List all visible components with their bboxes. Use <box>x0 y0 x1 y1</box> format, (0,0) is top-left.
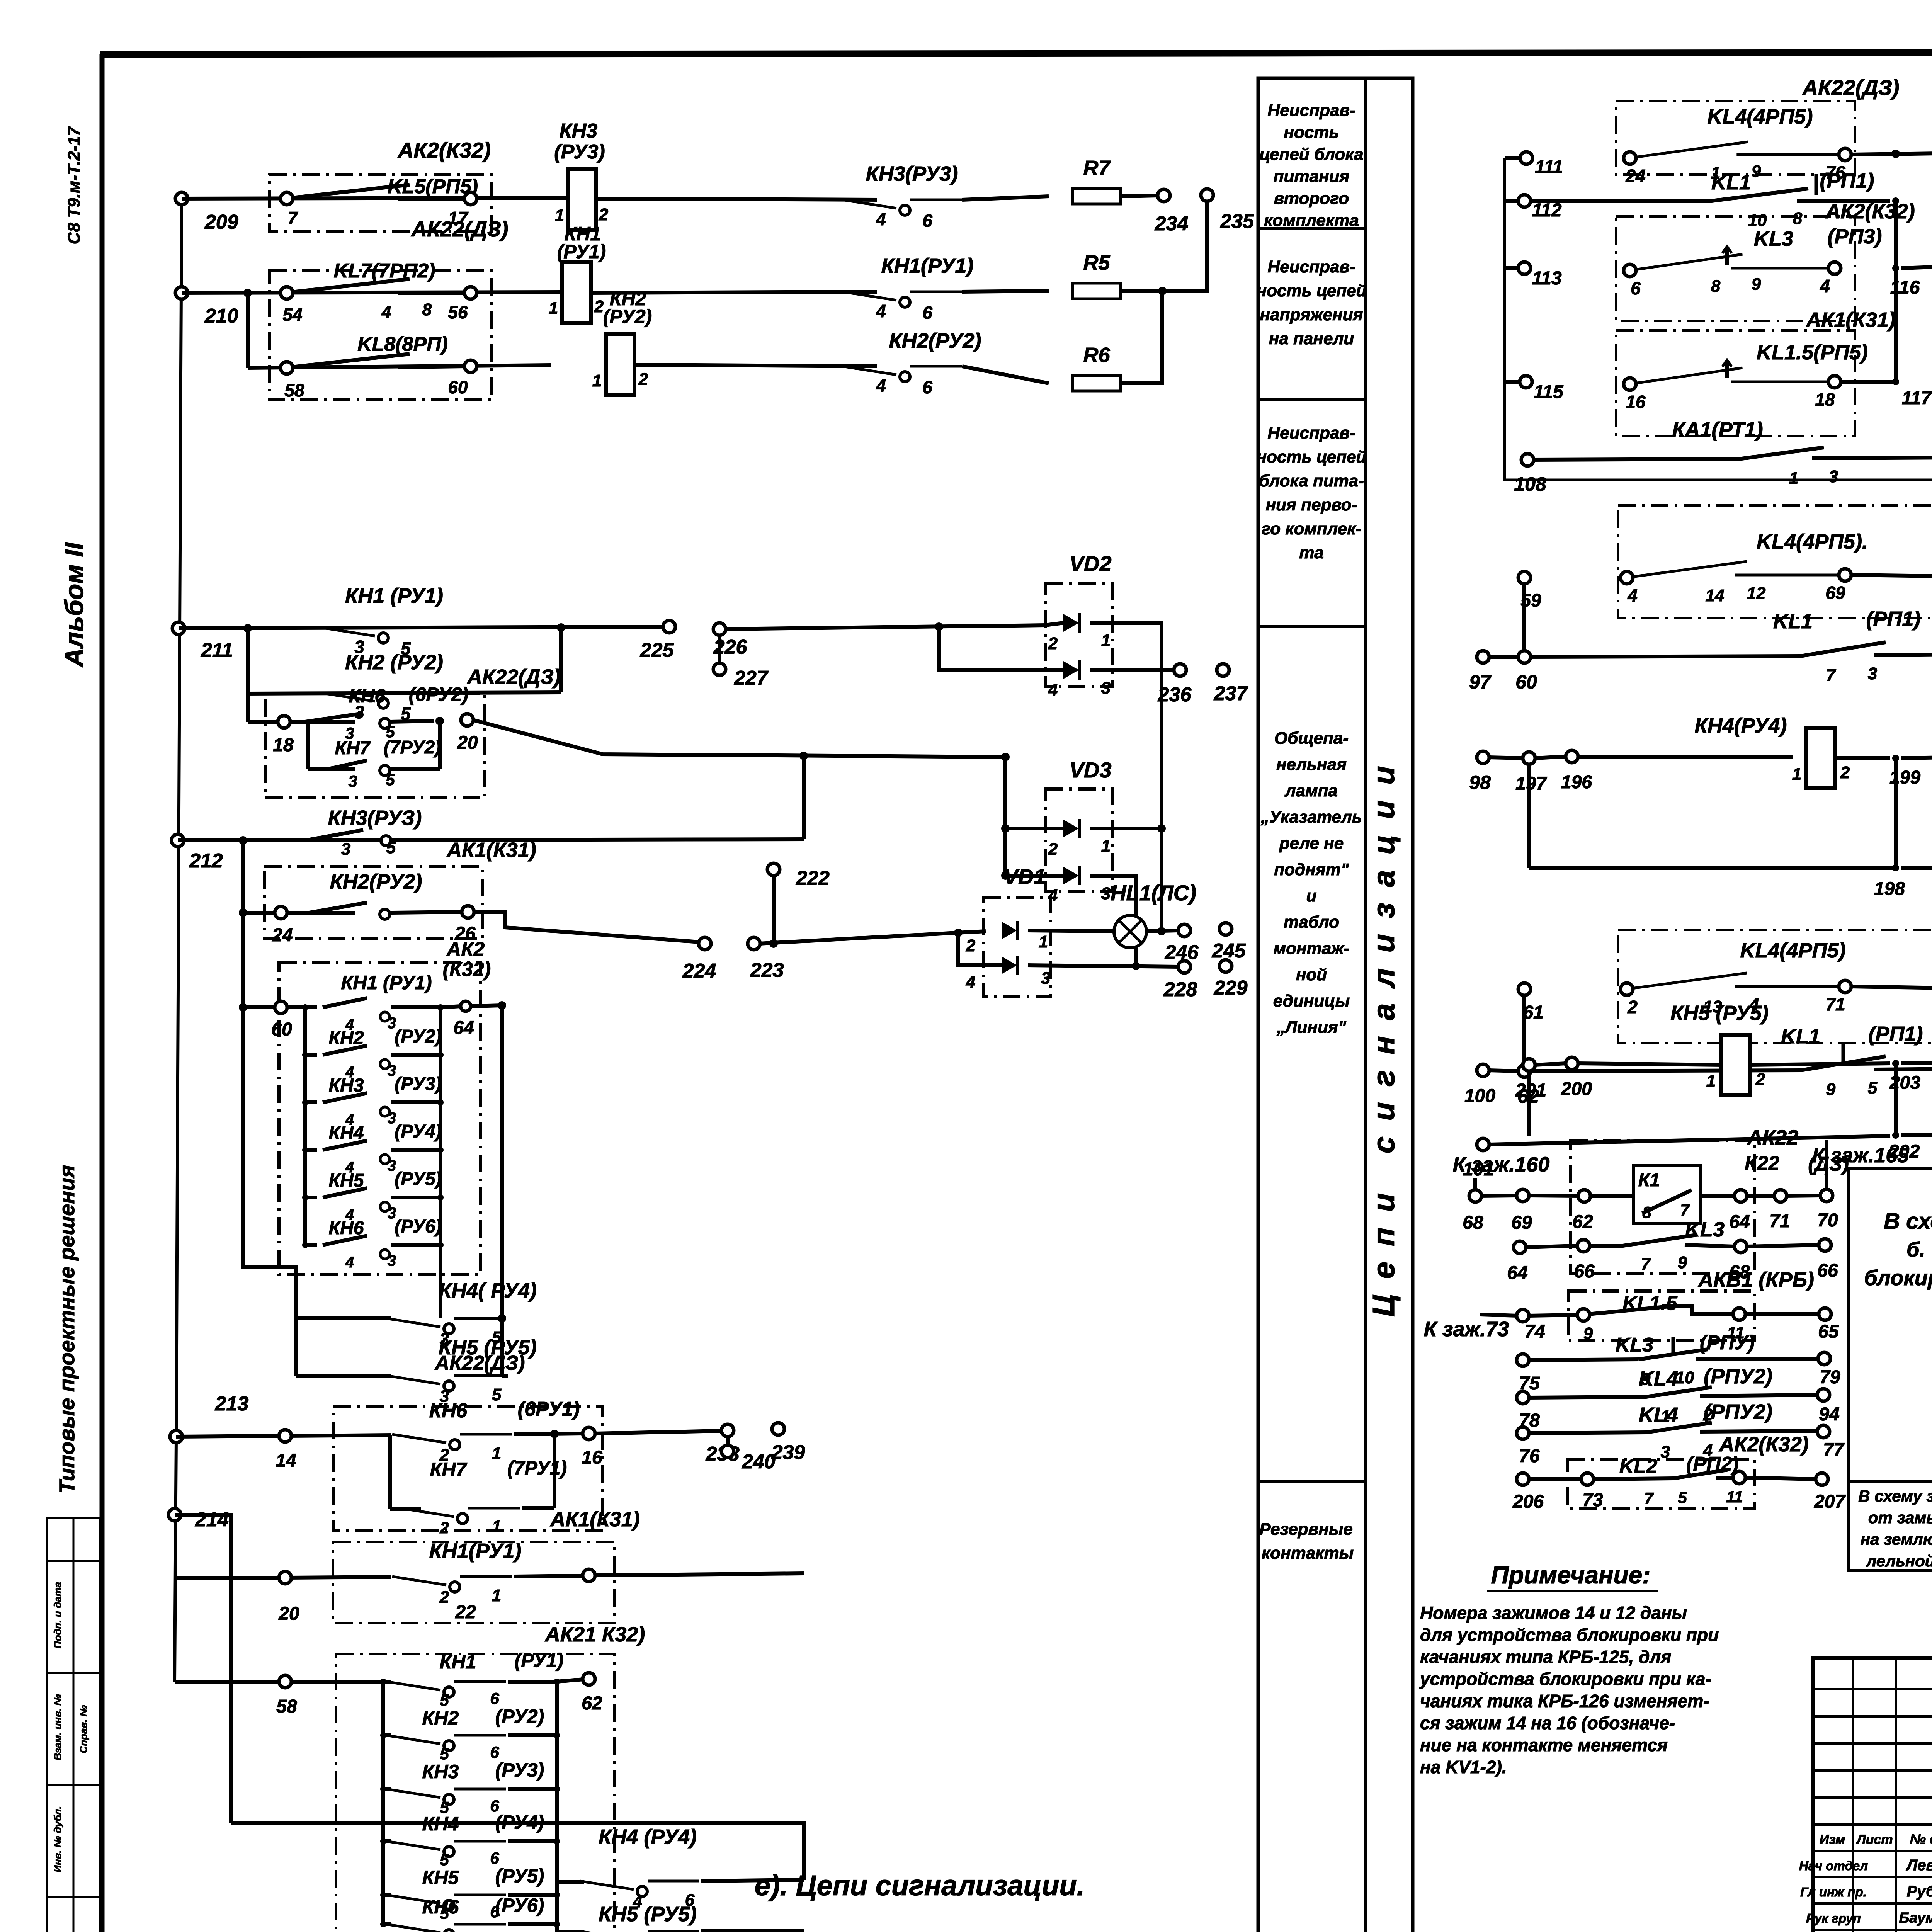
coil KH2(RU2) <box>592 288 652 395</box>
relay box AK22(D3) top right <box>1616 75 1899 175</box>
contact KL1.4(RP4) row202 <box>1901 1111 1932 1163</box>
wire row kh1 bottom <box>175 1576 280 1580</box>
wire row98 <box>1488 757 1524 758</box>
svg-text:К22: К22 <box>1745 1152 1779 1175</box>
svg-text:16: 16 <box>582 1447 602 1468</box>
svg-text:ность цепей: ность цепей <box>1257 447 1367 466</box>
device box K1 <box>1633 1165 1701 1224</box>
legend text panel lamp <box>1260 729 1362 1037</box>
terminal 66b <box>1817 1239 1838 1281</box>
svg-text:R6: R6 <box>1083 344 1110 367</box>
svg-text:КН1 (РУ1): КН1 (РУ1) <box>341 972 432 993</box>
svg-text:(РУ2): (РУ2) <box>603 306 652 327</box>
terminal 237 <box>1214 664 1248 705</box>
svg-text:210: 210 <box>204 305 238 327</box>
svg-text:2: 2 <box>439 1588 449 1607</box>
terminal 234 <box>1155 189 1189 235</box>
svg-text:6: 6 <box>490 1689 499 1708</box>
terminal 201 <box>1515 1059 1546 1136</box>
svg-text:КН1(РУ1): КН1(РУ1) <box>429 1539 522 1563</box>
svg-text:лампа: лампа <box>1284 781 1338 800</box>
bottom ladder verticals <box>381 1682 385 1924</box>
svg-text:8: 8 <box>1793 209 1803 228</box>
contact КН6(РУ6) bottom ladder <box>380 1895 560 1932</box>
svg-text:KL4(4РП5): KL4(4РП5) <box>1740 939 1846 962</box>
wire row5 <box>248 692 561 694</box>
svg-text:В схему: В схему <box>1884 1209 1932 1234</box>
svg-text:KL4(4РП5): KL4(4РП5) <box>1708 105 1813 128</box>
wire 24 row <box>243 911 276 915</box>
svg-text:КА1(РТ1): КА1(РТ1) <box>1672 418 1763 441</box>
terminal 76 <box>1517 1427 1540 1466</box>
terminal 79 <box>1818 1352 1840 1388</box>
wire row3 left <box>248 365 551 368</box>
node 209 <box>175 192 238 233</box>
node 211 <box>172 622 233 662</box>
contact KL4(RPU2) row78 <box>1528 1365 1818 1426</box>
svg-text:5: 5 <box>440 1850 449 1869</box>
wire VD3 pin3 out <box>1090 876 1136 966</box>
wire 58 to ladder <box>291 1680 383 1684</box>
contact KH5(RU5) row <box>296 1318 537 1406</box>
svg-text:18: 18 <box>273 735 294 755</box>
svg-text:4: 4 <box>381 303 391 321</box>
svg-text:Общепа-: Общепа- <box>1274 729 1349 748</box>
svg-text:нельная: нельная <box>1276 755 1347 774</box>
terminal 77 <box>1817 1425 1845 1460</box>
wire row4 <box>179 627 664 628</box>
svg-text:14: 14 <box>1706 586 1725 605</box>
svg-text:Левкович: Левкович <box>1906 1857 1932 1874</box>
svg-text:5: 5 <box>386 838 396 857</box>
svg-text:4: 4 <box>1627 585 1638 605</box>
svg-text:питания: питания <box>1274 167 1350 186</box>
junction row6 x2080 <box>799 752 808 760</box>
terminal 69b <box>1511 1189 1532 1233</box>
right feed bus <box>1505 158 1932 480</box>
coil KH5(RU5) <box>1670 1002 1769 1095</box>
svg-text:18: 18 <box>1815 389 1835 410</box>
wire 197 to 198 row <box>1529 764 1896 868</box>
wire row214 <box>175 1515 231 1823</box>
svg-text:КН5 (РУ5): КН5 (РУ5) <box>1670 1002 1769 1025</box>
legend text fault first set <box>1257 423 1367 562</box>
svg-text:АК2(К32): АК2(К32) <box>1825 200 1915 223</box>
wire row6 left <box>248 720 279 724</box>
contact KL3(RPU1) row3520 <box>1528 1332 1819 1389</box>
svg-text:68: 68 <box>1463 1213 1483 1233</box>
terminal 223 <box>748 937 784 981</box>
contact КН1(РУ1) ladder <box>305 972 432 1007</box>
svg-text:КН3(РУЗ): КН3(РУЗ) <box>328 806 422 830</box>
wire 199 down 198 <box>1894 758 1898 868</box>
svg-text:97: 97 <box>1469 671 1492 693</box>
svg-text:7: 7 <box>1641 1255 1651 1274</box>
svg-text:Взам. инв. №: Взам. инв. № <box>52 1694 63 1760</box>
terminal 245 <box>1212 923 1246 962</box>
svg-text:2: 2 <box>1627 997 1638 1017</box>
svg-text:227: 227 <box>734 667 769 689</box>
svg-text:222: 222 <box>796 867 830 889</box>
contact KL4(4RP5) row61 <box>1621 939 1851 1017</box>
svg-text:„Линия": „Линия" <box>1276 1018 1346 1037</box>
terminal 71b <box>1769 1190 1790 1231</box>
junction lamp feeds <box>769 939 778 948</box>
svg-text:235: 235 <box>1220 210 1254 233</box>
terminal 59 <box>1518 571 1541 651</box>
contact KH7(7RU1) <box>390 1434 567 1537</box>
terminal 62 right <box>1517 1065 1539 1107</box>
svg-text:5: 5 <box>1678 1488 1687 1507</box>
junction 211 branch <box>243 624 252 633</box>
svg-text:Рубинчик: Рубинчик <box>1907 1883 1932 1900</box>
wire row2 mid <box>591 292 877 293</box>
contact KL3(RP3) row203 <box>1901 1022 1932 1091</box>
contact КН5(РУ5) ladder <box>305 1169 442 1197</box>
diode block VD2 <box>1045 551 1112 699</box>
svg-text:7: 7 <box>1680 1201 1690 1219</box>
wire ladder bottom link <box>243 1007 296 1376</box>
terminal 18 <box>273 716 294 755</box>
relay box AK1(K31) row115 <box>1616 308 1896 436</box>
wire row4 right <box>725 625 1045 629</box>
contact KH7(7RU2) <box>308 721 441 790</box>
terminal 22 bottom <box>455 1569 595 1622</box>
svg-text:4: 4 <box>1048 680 1058 699</box>
coil KH4(RU4) <box>1695 714 1850 788</box>
terminal 101 <box>1463 1138 1494 1180</box>
svg-text:блокировки: блокировки <box>1864 1265 1932 1290</box>
wire long bottom link <box>231 1823 804 1880</box>
svg-text:(РУ6): (РУ6) <box>495 1895 544 1916</box>
svg-text:КН2(РУ2): КН2(РУ2) <box>330 870 422 893</box>
terminal 235 <box>1201 189 1254 233</box>
svg-text:КН6: КН6 <box>429 1400 468 1422</box>
svg-text:1: 1 <box>1792 765 1801 784</box>
svg-text:цепей блока: цепей блока <box>1259 145 1363 164</box>
terminal 73 <box>1581 1473 1603 1510</box>
svg-text:KL1: KL1 <box>1781 1025 1820 1048</box>
middle legend column <box>1258 78 1413 1932</box>
svg-text:KL2: KL2 <box>1619 1455 1657 1478</box>
svg-text:14: 14 <box>276 1451 296 1471</box>
terminal 65 <box>1818 1308 1839 1342</box>
wire 101 row <box>1488 1136 1890 1145</box>
terminal 196 <box>1561 750 1592 793</box>
svg-text:239: 239 <box>771 1441 805 1464</box>
node 210 <box>175 287 238 327</box>
svg-text:62: 62 <box>1572 1212 1593 1232</box>
terminal 100 <box>1464 1064 1495 1106</box>
svg-text:Изм: Изм <box>1820 1832 1845 1847</box>
svg-text:6: 6 <box>490 1849 499 1867</box>
svg-text:60: 60 <box>271 1019 292 1040</box>
svg-text:3: 3 <box>348 772 357 790</box>
svg-text:1: 1 <box>1101 837 1111 855</box>
wire VD3 pin1 out <box>1090 827 1162 830</box>
contact КН4(РУ4) bottom ladder <box>380 1811 560 1869</box>
svg-text:1: 1 <box>1101 631 1111 650</box>
legend text fault voltage <box>1257 257 1367 348</box>
svg-text:Неисправ-: Неисправ- <box>1267 423 1355 442</box>
svg-text:В схему защиты: В схему защиты <box>1858 1487 1932 1505</box>
svg-text:блока пита-: блока пита- <box>1259 471 1364 490</box>
contact KL8(8RP) <box>281 333 477 400</box>
note text <box>1419 1603 1719 1777</box>
svg-text:197: 197 <box>1515 774 1547 794</box>
svg-text:1: 1 <box>1706 1071 1716 1090</box>
terminal 62b <box>1572 1190 1593 1232</box>
contact KH2(RU2) button <box>842 329 981 397</box>
svg-text:КН4 (РУ4): КН4 (РУ4) <box>599 1825 697 1849</box>
wire VD1 pin4 feed <box>958 933 1002 965</box>
wire 62 stub <box>557 1679 583 1682</box>
terminal 225 <box>640 621 675 662</box>
junction 203 <box>1889 1060 1920 1093</box>
svg-text:234: 234 <box>1155 213 1189 235</box>
svg-text:108: 108 <box>1514 473 1546 495</box>
svg-text:(7РУ1): (7РУ1) <box>507 1457 567 1479</box>
svg-text:60: 60 <box>1515 671 1537 693</box>
wire row kh1 bottom right <box>594 1573 804 1575</box>
svg-text:77: 77 <box>1823 1440 1845 1460</box>
node 214 <box>168 1509 229 1531</box>
svg-text:напряжения: напряжения <box>1260 305 1363 324</box>
svg-text:КН2: КН2 <box>422 1707 459 1729</box>
svg-text:198: 198 <box>1874 879 1905 899</box>
contact KH1(RU1) button <box>842 254 973 323</box>
junction 198 <box>1874 864 1905 899</box>
wire row111 right <box>1850 153 1932 155</box>
svg-text:2: 2 <box>599 205 609 224</box>
svg-text:„Указатель: „Указатель <box>1260 808 1362 827</box>
svg-text:на панели: на панели <box>1269 329 1354 348</box>
wire ladder feed <box>243 1005 276 1009</box>
relay box AK2(K32) ladder <box>279 962 481 1274</box>
svg-text:(РУ4): (РУ4) <box>395 1121 441 1142</box>
svg-text:для устройства блокировки при: для устройства блокировки при <box>1420 1625 1719 1645</box>
svg-text:Номера зажимов 14 и 12 даны: Номера зажимов 14 и 12 даны <box>1420 1603 1687 1623</box>
svg-text:Справ. №: Справ. № <box>78 1705 89 1753</box>
legend text reserve contacts <box>1259 1520 1354 1563</box>
relay box AK22(D3) kh6 <box>1618 477 1932 618</box>
svg-text:240: 240 <box>742 1451 776 1473</box>
svg-text:(РУ3): (РУ3) <box>495 1759 544 1781</box>
svg-text:228: 228 <box>1163 978 1197 1001</box>
terminal 75 <box>1517 1354 1540 1394</box>
svg-text:24: 24 <box>272 925 293 946</box>
svg-text:АК1(К31): АК1(К31) <box>1805 308 1895 332</box>
wire R7 to 234 <box>1121 196 1158 196</box>
terminal 227 <box>713 634 769 689</box>
svg-text:7: 7 <box>287 208 298 228</box>
terminal 61 <box>1518 983 1544 1065</box>
svg-text:е). Цепи сигнализации.: е). Цепи сигнализации. <box>755 1869 1085 1901</box>
relay box AK2(K32) row113 <box>1616 216 1855 321</box>
svg-text:АК22(ДЗ): АК22(ДЗ) <box>466 665 561 689</box>
svg-text:66: 66 <box>1817 1260 1838 1281</box>
svg-text:24: 24 <box>1625 166 1645 186</box>
wire row213 right <box>594 1431 722 1434</box>
terminal 226 <box>713 623 748 658</box>
svg-text:9: 9 <box>1826 1080 1836 1099</box>
svg-text:6: 6 <box>922 303 932 323</box>
diode block VD3 <box>1045 758 1112 905</box>
wire row213 left <box>176 1436 280 1437</box>
svg-text:HL1(ЛС): HL1(ЛС) <box>1111 881 1196 905</box>
terminal 20 <box>457 714 478 753</box>
junction KH7 right <box>435 717 444 725</box>
svg-text:(РП3): (РП3) <box>1828 225 1882 248</box>
svg-text:(6РУ1): (6РУ1) <box>518 1398 580 1420</box>
contact KL1.5 row3405 <box>1528 1292 1745 1343</box>
terminal 206 <box>1512 1473 1544 1512</box>
svg-text:3: 3 <box>1041 969 1050 988</box>
svg-text:5: 5 <box>1868 1078 1878 1097</box>
svg-text:2: 2 <box>1048 840 1058 859</box>
terminal 66 <box>1574 1240 1595 1282</box>
svg-text:74: 74 <box>1524 1321 1545 1342</box>
svg-text:устройства блокировки при ка-: устройства блокировки при ка- <box>1419 1669 1711 1689</box>
terminal 246 <box>1165 924 1199 964</box>
svg-text:КН3: КН3 <box>560 120 598 142</box>
svg-text:единицы: единицы <box>1273 992 1350 1010</box>
wire 235 down to R5 node <box>1162 201 1207 291</box>
svg-text:1: 1 <box>492 1444 501 1463</box>
terminal 98 <box>1469 751 1491 793</box>
svg-text:Лист: Лист <box>1855 1832 1893 1847</box>
title block tables <box>1813 1658 1932 1932</box>
svg-text:(РП1): (РП1) <box>1866 607 1921 631</box>
svg-text:65: 65 <box>1818 1321 1839 1342</box>
relay box AK1(K31) 24-26 <box>264 867 482 939</box>
svg-text:КН3: КН3 <box>329 1075 364 1096</box>
terminal 222 <box>767 863 830 944</box>
svg-text:71: 71 <box>1825 994 1845 1014</box>
terminal 68b <box>1729 1240 1750 1282</box>
label AK22 K22 D3 <box>1745 1126 1849 1175</box>
contact KL3(RP3) row113 <box>1624 225 1882 298</box>
svg-text:4: 4 <box>876 376 886 396</box>
svg-text:1: 1 <box>1039 932 1048 951</box>
wire VD2 pin2 feed <box>1045 623 1063 625</box>
contact КН4(РУ4) ladder <box>305 1121 442 1150</box>
wire row1 right <box>962 196 1049 200</box>
svg-text:от замыканий: от замыканий <box>1868 1509 1932 1527</box>
terminal 62 bottom <box>582 1673 602 1714</box>
terminal 58 bottom <box>276 1675 297 1717</box>
wire 64 to right chain <box>471 1001 506 1323</box>
terminal 70 <box>1817 1189 1838 1231</box>
contact KL4(4RP5) row59 <box>1621 530 1868 605</box>
svg-text:9: 9 <box>1752 162 1761 181</box>
terminal 113 <box>1505 262 1562 289</box>
resistor R7 <box>1073 189 1121 204</box>
contact KL1.5(RP5) row115 <box>1624 341 1868 412</box>
svg-text:1: 1 <box>555 206 564 225</box>
svg-text:20: 20 <box>278 1604 299 1624</box>
contact KH2(RU2) 24-26 <box>286 870 463 919</box>
relay box AK1(K31) bottom <box>333 1508 640 1623</box>
svg-text:лельной линии: лельной линии <box>1866 1552 1932 1570</box>
contact KH6(6RU1) <box>392 1398 580 1464</box>
svg-text:контакты: контакты <box>1262 1544 1354 1563</box>
terminal 240 <box>721 1436 776 1473</box>
svg-text:211: 211 <box>201 639 233 662</box>
relay box AK22(D3) left <box>269 217 508 400</box>
wire branch to 24 row <box>241 840 245 913</box>
svg-text:64: 64 <box>1507 1263 1527 1283</box>
svg-text:ся зажим 14 на 16 (обозначе-: ся зажим 14 на 16 (обозначе- <box>1420 1713 1675 1733</box>
svg-text:206: 206 <box>1512 1492 1544 1512</box>
svg-text:та: та <box>1299 543 1324 562</box>
svg-text:(РУ5): (РУ5) <box>495 1865 544 1887</box>
terminal 20 bottom <box>278 1571 299 1624</box>
svg-text:качаниях типа КРБ-125, для: качаниях типа КРБ-125, для <box>1420 1647 1671 1667</box>
contact КН5(РУ5) bottom ladder <box>380 1865 560 1922</box>
svg-text:б. ч.: б. ч. <box>1906 1238 1932 1261</box>
svg-text:60: 60 <box>448 377 468 397</box>
svg-text:КН2: КН2 <box>329 1028 364 1048</box>
svg-text:5: 5 <box>440 1691 449 1709</box>
svg-text:ность цепей: ность цепей <box>1257 281 1367 300</box>
wire to 65 <box>1745 1312 1820 1316</box>
contact KA1(RT1) <box>1533 418 1932 488</box>
svg-text:(РУ6): (РУ6) <box>395 1216 441 1237</box>
svg-text:64: 64 <box>453 1018 474 1038</box>
svg-text:табло: табло <box>1284 913 1339 932</box>
svg-text:(РУ1): (РУ1) <box>515 1650 563 1671</box>
svg-text:2: 2 <box>1755 1070 1765 1089</box>
contact KH1(RU1) bottom <box>291 1539 583 1607</box>
svg-text:4: 4 <box>966 973 975 992</box>
junction row111 <box>1891 150 1900 158</box>
terminal 64b <box>1729 1190 1750 1232</box>
svg-text:2: 2 <box>594 297 604 316</box>
terminal 228 <box>1163 961 1197 1001</box>
svg-text:7: 7 <box>1644 1489 1654 1507</box>
svg-text:на землю парал-: на землю парал- <box>1861 1530 1932 1548</box>
svg-text:КН6: КН6 <box>329 1218 364 1238</box>
terminal 14 row213 <box>276 1430 296 1471</box>
svg-text:64: 64 <box>1729 1212 1750 1232</box>
wire coil kh4 right <box>1835 756 1890 760</box>
wire 60 to ladder <box>286 1005 305 1009</box>
wire VD3 pin2 feed <box>1005 827 1063 830</box>
svg-text:КН3: КН3 <box>422 1761 459 1782</box>
node 213 <box>170 1393 248 1443</box>
wire 26 out to lamp row <box>473 912 699 942</box>
note title <box>1487 1561 1658 1591</box>
wire lamp row <box>759 931 986 944</box>
contact KL1(RP1) row100 <box>1530 1022 1932 1099</box>
contact KH3(RU3) button <box>842 162 962 231</box>
terminal 224 <box>682 937 716 982</box>
contact KH6(6RU2) <box>289 684 468 742</box>
svg-text:5: 5 <box>492 1385 502 1404</box>
relay box AK2(K32) top <box>269 138 492 232</box>
svg-text:KL4: KL4 <box>1639 1367 1678 1390</box>
svg-text:100: 100 <box>1464 1086 1495 1106</box>
svg-text:KL8(8РП): KL8(8РП) <box>357 333 448 355</box>
wire row160 <box>1481 1196 1517 1196</box>
svg-text:KL7(7РП2): KL7(7РП2) <box>334 260 435 282</box>
svg-text:К заж.73: К заж.73 <box>1424 1318 1509 1341</box>
svg-text:АК2(К32): АК2(К32) <box>1718 1433 1808 1456</box>
svg-text:КН3(РУ3): КН3(РУ3) <box>866 162 958 185</box>
svg-text:69: 69 <box>1511 1213 1532 1233</box>
wire 70 rise <box>1825 1140 1828 1190</box>
